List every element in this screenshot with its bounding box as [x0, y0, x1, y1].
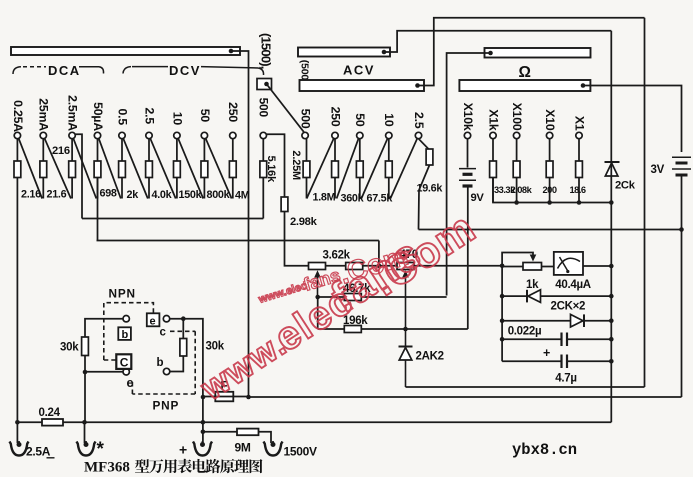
svg-text:+: + [179, 442, 187, 458]
wire contact 10 to resistor [176, 139, 178, 161]
resistor 150k [174, 161, 181, 178]
wire resistor 2.08k to ohm bus [516, 178, 518, 203]
wire diagonal from contact 0.25A [19, 138, 42, 198]
battery 3V [672, 157, 691, 175]
wire ACV contact 10 to resistor 67.5k [388, 139, 390, 161]
capacitor 0.022u row [502, 333, 611, 347]
svg-text:2CK×2: 2CK×2 [551, 301, 586, 313]
wire terminal stub 2.5A [16, 422, 18, 443]
switch contact 50 [201, 132, 207, 138]
wire rail 644 top-right rectangle [644, 18, 646, 387]
wire ohm contact X1k to resistor 33.3k [492, 139, 494, 161]
svg-text:2.25M: 2.25M [290, 150, 302, 180]
wiper dot ACV upper bar [382, 50, 387, 55]
wire diode row 2CK left-pointing [502, 290, 611, 303]
wire ohm contact X1 to resistor 18.6 [578, 139, 580, 161]
wiper dot ohm upper bar [488, 51, 493, 56]
wire DCV common rail lower segment to fuse node [248, 241, 250, 398]
wire star rail down [84, 372, 86, 422]
wire ohm main bar to 3V battery rail [583, 86, 682, 153]
svg-text:3V: 3V [651, 164, 665, 176]
svg-text:2Ck: 2Ck [615, 180, 636, 192]
svg-text:67.5k: 67.5k [367, 193, 394, 205]
junction dot ohm bus x10 [547, 200, 552, 205]
junction dot cap row right [609, 337, 614, 342]
wire 9M row [203, 431, 237, 433]
svg-text:10: 10 [382, 113, 396, 127]
wire meter left rail [501, 266, 503, 362]
svg-text:2.98k: 2.98k [290, 216, 318, 228]
svg-text:30k: 30k [60, 342, 79, 354]
svg-text:1500V: 1500V [284, 445, 317, 459]
wire ohm contact X100 to resistor 2.08k [516, 139, 518, 161]
svg-text:150k: 150k [179, 189, 203, 201]
wire resistor 150k bottom stub [176, 178, 178, 199]
svg-text:PNP: PNP [153, 399, 180, 413]
wire resistor 1.8M bottom stub [334, 178, 336, 199]
wire contact 50 to resistor [203, 139, 205, 161]
wire ACV upper bar to right rail 611 [384, 31, 611, 52]
wire junction to 30k right [182, 319, 184, 339]
resistor 216 [69, 161, 76, 178]
junction dot H3 star [82, 420, 87, 425]
wire resistor 360k bottom stub [359, 178, 361, 199]
svg-text:C: C [120, 356, 129, 370]
svg-text:50: 50 [198, 109, 212, 123]
capacitor 4.7u row [502, 355, 611, 369]
svg-text:(1500),: (1500), [259, 33, 274, 69]
switch contact 0.5 [119, 132, 125, 138]
ohm switch contact X1 [576, 132, 582, 138]
svg-text:X100: X100 [510, 103, 524, 131]
switch contact 25mA [40, 132, 46, 138]
svg-text:2k: 2k [127, 189, 140, 201]
svg-text:50: 50 [353, 113, 367, 127]
switch bar DCA/DCV [11, 47, 240, 55]
svg-text:X1: X1 [572, 116, 586, 131]
ohm bus [493, 178, 611, 203]
wire resistor 21.6 bottom stub [42, 178, 44, 199]
wire diagonal from ACV contact 50 [337, 138, 359, 198]
svg-text:2.5A: 2.5A [26, 445, 51, 459]
diode 2AK2 [399, 329, 413, 387]
resistor 30k right [180, 339, 187, 357]
potentiometer 1k with bypass arrow [502, 253, 554, 271]
wire bus at y229.5 to 3V rail [419, 229, 682, 231]
junction dot meter rail row1 [500, 264, 505, 269]
resistor 19.6k [426, 149, 433, 165]
ohm switch contact X10 [546, 132, 552, 138]
svg-text:4.0k: 4.0k [152, 189, 173, 201]
wire 9V battery rail down to 196k row [467, 186, 469, 329]
svg-text:2.5mA: 2.5mA [66, 95, 80, 131]
wiper dot DCV 500 [264, 82, 269, 87]
svg-text:+: + [543, 346, 550, 360]
wiper dot ACV main bar [415, 83, 420, 88]
svg-text:NPN: NPN [109, 287, 136, 301]
resistor 2.25M [303, 161, 310, 178]
junction dot fuse left [201, 395, 206, 400]
ACV switch contact 250 [332, 132, 338, 138]
wire H1 from 2AK2 to rail 644 [406, 386, 645, 388]
svg-text:0.5: 0.5 [115, 109, 129, 126]
svg-text:X10: X10 [543, 109, 557, 131]
wire resistor 2.25M bottom stub [306, 178, 308, 199]
ACV switch contact 50 [357, 132, 363, 138]
resistor 0.24 [42, 419, 63, 426]
wire contact X10k to 9V battery [467, 139, 469, 168]
junction dot ohm bus x1 [577, 200, 582, 205]
wiper dot ohm main bar [581, 83, 586, 88]
wire contact 2.5 to resistor [148, 139, 150, 161]
ACV switch contact 2.5 [415, 132, 421, 138]
svg-text:Ω: Ω [519, 64, 531, 81]
switch contact 2.5 [146, 132, 152, 138]
svg-text:b: b [122, 329, 129, 341]
resistor 200 [546, 161, 553, 178]
watermark www.elecfans.com large [194, 203, 485, 408]
label DCV with bracket [123, 63, 264, 78]
svg-text:50µA: 50µA [91, 102, 105, 131]
wire contact 0.25A to resistor [16, 139, 18, 161]
svg-text:200: 200 [543, 185, 557, 195]
wire PNP contact to junction and right rail [170, 319, 203, 443]
terminal star [77, 442, 96, 456]
wire meter row 470 [326, 265, 503, 267]
wire ohm contact X10 to resistor 200 [549, 139, 551, 161]
dashed box PNP [132, 331, 195, 394]
junction dot 470 node [377, 264, 382, 269]
svg-text:2.5: 2.5 [142, 108, 156, 125]
wire resistor 2k bottom stub [121, 178, 123, 199]
switch contact 250 [230, 132, 236, 138]
junction dot PNP contact [181, 316, 186, 321]
wire H2 fuse row to 3V rail [249, 396, 682, 398]
resistor 5.16k [260, 161, 267, 178]
wire ACV main bar to top line and rail 644 [418, 18, 645, 86]
wire 196k row [318, 328, 468, 330]
wire 46.7k row [318, 296, 447, 298]
switch bar ohm main [459, 80, 590, 91]
socket contact NPN top [123, 316, 129, 322]
wire wiper column 3.62k down to 196k row [317, 297, 319, 329]
switch contact 500 DCV [260, 132, 266, 138]
svg-text:2.5: 2.5 [412, 112, 426, 129]
svg-text:0.25A: 0.25A [11, 100, 25, 132]
wire resistor 67.5k bottom stub [388, 178, 390, 199]
junction dot meter rail row3 [500, 318, 505, 323]
resistor 2.08k [513, 161, 520, 178]
svg-text:0.24: 0.24 [39, 407, 61, 419]
wire ACV contact 500 to resistor 2.25M [306, 139, 308, 161]
svg-text:25mA: 25mA [37, 98, 51, 131]
resistor 2.98k [281, 197, 288, 212]
wire bus A [82, 218, 263, 220]
switch contact 10 [174, 132, 180, 138]
junction dot ohm bus x100 [514, 200, 519, 205]
svg-text:4.7µ: 4.7µ [555, 373, 576, 385]
switch bar ACV main [300, 80, 425, 91]
ACV switch contact 10 [386, 132, 392, 138]
ohm switch contact X10k [464, 132, 470, 138]
wire contact 500 to resistor 5.16k [262, 139, 264, 161]
junction dot diode2 row right [609, 318, 614, 323]
potentiometer 470 [397, 263, 414, 330]
svg-text:500: 500 [299, 109, 313, 129]
svg-text:1.8M: 1.8M [313, 192, 336, 204]
ohm switch contact X1k [490, 132, 496, 138]
wire H3 bottom bus [17, 421, 611, 423]
label 2.5A [26, 445, 55, 459]
wire resistor 4.0k bottom stub [148, 178, 150, 199]
wire resistor 4M bottom stub [232, 178, 234, 199]
resistor 46.7k [344, 294, 361, 301]
junction dot meter right [609, 264, 614, 269]
wire 2.98k to bus B and meter row [285, 212, 309, 266]
switch contact 0.25A [14, 132, 20, 138]
resistor 4.0k [146, 161, 153, 178]
svg-text:2.16: 2.16 [21, 189, 41, 201]
wire ACV contact 250 to resistor 1.8M [334, 139, 336, 161]
svg-text:9M: 9M [235, 441, 251, 455]
wire NPN contact to 30k left [85, 319, 123, 337]
junction dot 3V rail bus229 [679, 227, 684, 232]
resistor 3.62k fixed [346, 263, 363, 270]
switch wiper box DCV 500 [257, 79, 272, 90]
svg-text:DCV: DCV [169, 63, 201, 78]
resistor 67.5k [385, 161, 392, 178]
svg-text:21.6: 21.6 [47, 189, 67, 201]
junction dot meter rail row4 [500, 337, 505, 342]
svg-text:MF368: MF368 [84, 460, 130, 476]
wire meter to right rail [583, 265, 611, 267]
svg-text:216: 216 [52, 145, 70, 157]
wire 30k left to junction [84, 356, 86, 373]
wire diagonal from contact 50µA [99, 138, 121, 198]
resistor 9M [237, 429, 259, 436]
junction dot fuse right [246, 395, 251, 400]
wire 5.16k bottom to bus A [262, 178, 264, 219]
svg-text:c: c [160, 327, 167, 339]
svg-text:5.16k: 5.16k [265, 155, 277, 183]
watermark www.elecfans.com small [256, 240, 411, 307]
svg-text:ACV: ACV [343, 63, 375, 78]
terminal 2.5A [10, 442, 29, 456]
meter M 40.4uA [554, 252, 583, 275]
svg-text:2.08k: 2.08k [511, 185, 533, 195]
resistor 360k [356, 161, 363, 178]
socket contact PNP top [163, 316, 169, 322]
svg-text:X1k: X1k [486, 109, 500, 131]
svg-text:b: b [157, 357, 164, 369]
svg-text:698: 698 [100, 188, 117, 200]
svg-text:800k: 800k [207, 189, 231, 201]
svg-text:2AK2: 2AK2 [416, 351, 444, 363]
fuse F [204, 392, 249, 402]
svg-text:ybx8.cn: ybx8.cn [512, 441, 577, 459]
svg-text:360k: 360k [341, 193, 365, 205]
junction dot 46.7k row left [315, 295, 320, 300]
wire resistor 800k bottom stub [203, 178, 205, 199]
wire contact 25mA to resistor [42, 139, 44, 161]
battery 9V [459, 169, 476, 186]
wire junction to NPN bottom contact [85, 371, 123, 373]
terminal 1500V [264, 442, 283, 456]
wire bus B [97, 240, 379, 242]
dashed box NPN [104, 303, 154, 360]
wire contact 0.5 to resistor [121, 139, 123, 161]
wire resistor 200 to ohm bus [549, 178, 551, 203]
svg-text:X10k: X10k [461, 103, 475, 131]
junction dot H3 left [15, 420, 20, 425]
resistor 196k [344, 326, 361, 333]
ACV switch contact 500 [302, 132, 308, 138]
svg-text:(500: (500 [299, 60, 311, 81]
terminal plus [193, 442, 212, 456]
wire ACV contact 2.5 to resistor 19.6k [419, 139, 430, 150]
wire resistor 18.6 to ohm bus [578, 178, 580, 203]
wire from contact 2.5mA to bus A [75, 134, 82, 218]
junction dot 196k row 2AK2 [403, 327, 408, 332]
resistor 2k [119, 161, 126, 178]
junction dot 30k left bottom [83, 370, 88, 375]
label DCA with bracket [13, 63, 104, 78]
diode 2Ck [605, 162, 620, 176]
wire diagonal from contact 2.5mA [73, 138, 96, 198]
wire resistor 216 bottom stub [71, 178, 73, 199]
switch contact 2.5mA [69, 132, 75, 138]
svg-text:9V: 9V [471, 192, 485, 204]
wiper dot on DCA/DCV bar [229, 49, 234, 54]
resistor 4M [229, 161, 236, 178]
wire contact 500 to 2.98k branch [267, 134, 285, 197]
svg-text:0.022µ: 0.022µ [508, 326, 542, 338]
junction dot 9M branch [201, 430, 206, 435]
svg-text:1k: 1k [526, 279, 539, 291]
wire 30k right to b contact [170, 356, 183, 372]
resistor 1.8M [332, 161, 339, 178]
wire rail 611 with 2Ck to bottom bus [610, 31, 612, 423]
switch bar ohm upper [485, 48, 591, 58]
wire contact 50µA to resistor [97, 139, 99, 161]
wire ohm upper bar to 46.7k rail [447, 53, 491, 296]
socket contact NPN bottom [123, 369, 129, 375]
wire diagonal from ACV contact 2.5 [390, 138, 417, 198]
wire 698 rail down to bus B [97, 178, 99, 241]
junction dot meter rail row2 [500, 294, 505, 299]
wire left rail from resistor 2.16 to bottom bus [16, 178, 18, 423]
wire diagonal from contact 25mA [45, 138, 71, 198]
wire resistor 698 bottom stub [97, 178, 99, 199]
wire resistor 33.3k to ohm bus [492, 178, 494, 203]
socket pin box b NPN [118, 327, 131, 341]
wire diagonal wiper to ACV 500 contact [267, 84, 305, 132]
resistor 2.16 [14, 161, 21, 178]
socket pin box e NPN [147, 313, 160, 327]
wire diagonal from contact 10 [178, 138, 203, 198]
resistor 21.6 [40, 161, 47, 178]
wire diagonal from contact 2.5 [150, 138, 176, 198]
ohm switch contact X100 [513, 132, 519, 138]
socket contact b PNP [163, 368, 169, 374]
svg-text:250: 250 [226, 102, 240, 122]
wire terminal stub star [84, 422, 86, 443]
wire contact 2.5mA to resistor [71, 139, 73, 161]
junction dot H3 plus rail [201, 420, 206, 425]
junction dot cap2 row right [609, 359, 614, 364]
svg-text:DCA: DCA [48, 63, 81, 78]
resistor 33.3k [490, 161, 497, 178]
wire diagonal from ACV contact 250 [307, 138, 334, 198]
svg-text:e: e [150, 316, 156, 328]
switch bar ACV upper [298, 48, 390, 57]
junction dot diode row right [609, 294, 614, 299]
svg-text:18.6: 18.6 [570, 185, 586, 195]
wire 9M to 1500V terminal [259, 432, 272, 443]
resistor 30k left [82, 337, 89, 356]
svg-text:4M: 4M [235, 190, 250, 202]
resistor 800k [201, 161, 208, 178]
wire diode row right-pointing [502, 314, 611, 327]
wire from DCA/DCV bar to DCV common rail [231, 51, 249, 241]
wire diagonal from contact 50 [206, 138, 232, 198]
wire diagonal from ACV contact 10 [361, 138, 387, 198]
wire 3V battery rail to bottom [681, 175, 683, 397]
potentiometer 3.62k [309, 263, 326, 298]
svg-text:250: 250 [328, 107, 342, 127]
junction dot ohm bus 2Ck rail [609, 200, 614, 205]
wire ACV contact 50 to resistor 360k [359, 139, 361, 161]
svg-text:30k: 30k [206, 341, 225, 353]
wire 19.6k bottom to bus 229.5 [419, 165, 430, 230]
switch contact 50µA [94, 132, 100, 138]
resistor 18.6 [576, 161, 583, 178]
svg-text:*: * [97, 439, 105, 460]
wire bus B corner down to 470 node [378, 241, 380, 266]
svg-text:40.4µA: 40.4µA [555, 279, 591, 291]
socket pin box C NPN [116, 354, 131, 369]
svg-text:10: 10 [170, 112, 184, 126]
wire contact 250 to resistor [232, 139, 234, 161]
svg-text:500: 500 [257, 98, 271, 118]
resistor 698 [94, 161, 101, 178]
wire diagonal from contact 0.5 [123, 138, 148, 198]
